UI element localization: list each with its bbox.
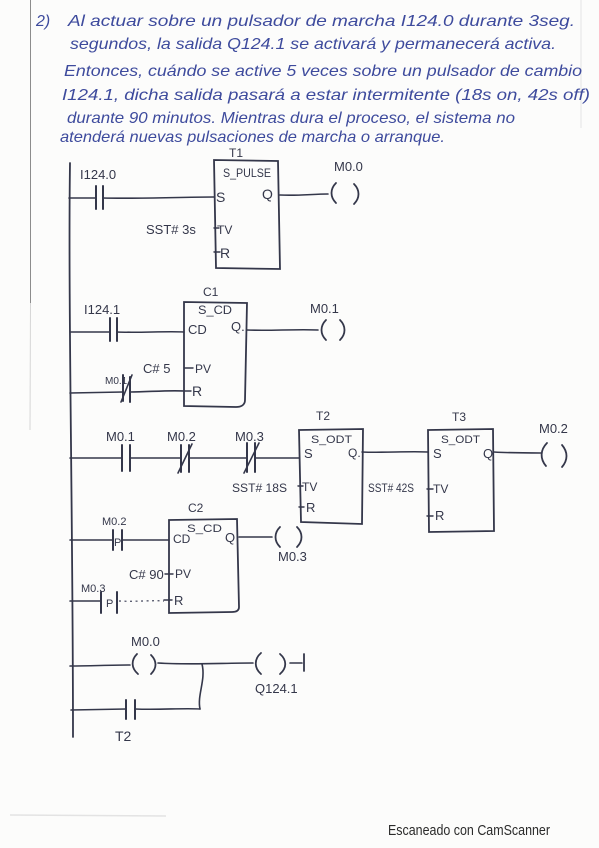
rung 5 branch wire left xyxy=(71,709,126,710)
svg-text:Q.: Q. xyxy=(348,446,361,460)
wire M0.0 to coil Q124.1 xyxy=(158,662,253,665)
svg-text:M0.2: M0.2 xyxy=(102,516,126,528)
svg-text:R: R xyxy=(306,500,315,515)
contact M0.3 negated xyxy=(235,429,264,473)
counter box C2 S_CD xyxy=(164,519,239,613)
svg-text:PV: PV xyxy=(195,362,211,376)
svg-text:R: R xyxy=(174,593,183,608)
svg-text:P: P xyxy=(114,537,121,549)
svg-text:M0.0: M0.0 xyxy=(131,634,160,649)
svg-text:Al actuar sobre un pulsador de: Al actuar sobre un pulsador de marcha I1… xyxy=(67,13,575,30)
branch junction wire xyxy=(199,664,203,709)
wire contact M0.1 to R xyxy=(130,391,184,392)
svg-text:M0.1: M0.1 xyxy=(105,376,128,387)
timer box T3 S_ODT xyxy=(427,429,494,532)
svg-text:C1: C1 xyxy=(203,285,219,299)
coil Q124.1 with end bar xyxy=(255,653,304,696)
svg-text:TV: TV xyxy=(217,223,232,237)
rung 2 wire left xyxy=(71,331,110,333)
svg-text:Q: Q xyxy=(225,530,235,545)
svg-text:S: S xyxy=(216,189,225,205)
rung 5 wire left xyxy=(70,665,130,666)
svg-text:S_CD: S_CD xyxy=(187,523,222,535)
wire T3 Q to coil M0.2 xyxy=(494,452,541,453)
svg-text:C# 5: C# 5 xyxy=(143,361,170,376)
timer box T2 S_ODT xyxy=(298,429,363,524)
svg-text:S: S xyxy=(433,446,442,461)
svg-text:M0.0: M0.0 xyxy=(334,159,363,174)
wire to T2 xyxy=(255,457,299,459)
wire xyxy=(189,457,247,459)
svg-text:Q124.1: Q124.1 xyxy=(255,681,298,696)
svg-text:T2: T2 xyxy=(316,409,330,423)
coil M0.2 xyxy=(539,421,568,467)
wire T1 Q to coil M0.0 xyxy=(280,194,328,195)
svg-text:CD: CD xyxy=(173,532,191,546)
contact I124.0 xyxy=(80,167,116,209)
svg-text:CD: CD xyxy=(188,322,207,337)
svg-text:P: P xyxy=(106,598,113,610)
svg-text:Q: Q xyxy=(262,186,273,202)
svg-text:Entonces, cuándo se active 5 v: Entonces, cuándo se active 5 veces sobre… xyxy=(64,63,582,80)
svg-text:SST# 3s: SST# 3s xyxy=(146,222,196,237)
svg-text:M0.1: M0.1 xyxy=(310,301,339,316)
wire contact to C1 xyxy=(117,331,184,334)
paper edge shadow right xyxy=(580,0,582,128)
svg-text:M0.2: M0.2 xyxy=(167,429,196,444)
svg-text:S_CD: S_CD xyxy=(198,303,232,317)
contact M0.1 negated xyxy=(105,375,132,402)
svg-text:R: R xyxy=(220,245,230,261)
rung 3 wire left xyxy=(70,457,122,459)
rung 2 reset branch wire xyxy=(70,392,123,393)
contact M0.3 positive edge xyxy=(81,583,117,613)
svg-text:R: R xyxy=(435,508,444,523)
svg-text:S_ODT: S_ODT xyxy=(311,434,352,446)
coil M0.1 xyxy=(310,301,345,340)
contact I124.1 xyxy=(84,302,120,341)
contact M0.2 positive edge xyxy=(102,516,126,550)
svg-text:M0.3: M0.3 xyxy=(235,429,264,444)
svg-text:S_ODT: S_ODT xyxy=(441,434,480,446)
svg-text:Escaneado con CamScanner: Escaneado con CamScanner xyxy=(388,822,550,839)
svg-text:I124.0: I124.0 xyxy=(80,167,116,182)
wire contact to C2 xyxy=(122,539,169,541)
coil M0.3 xyxy=(276,527,307,564)
wire contact to T1 xyxy=(103,197,214,198)
coil contact M0.0 xyxy=(131,634,160,674)
svg-text:T3: T3 xyxy=(452,410,466,424)
paper edge shadow bottom-left xyxy=(10,815,166,816)
svg-text:atenderá nuevas pulsaciones de: atenderá nuevas pulsaciones de marcha o … xyxy=(60,129,445,146)
rung 1 wire left xyxy=(69,197,96,199)
svg-text:Q: Q xyxy=(483,446,493,461)
coil M0.0 xyxy=(332,159,363,204)
contact T2 xyxy=(115,700,135,744)
rung 4 reset branch wire xyxy=(70,600,101,602)
notebook margin line left xyxy=(30,0,32,303)
left power rail xyxy=(70,163,73,737)
contact M0.1 xyxy=(106,429,135,471)
svg-text:I124.1, dicha salida pasará a: I124.1, dicha salida pasará a estar inte… xyxy=(62,87,590,104)
wire xyxy=(130,457,181,459)
svg-text:S_PULSE: S_PULSE xyxy=(223,166,271,180)
wire C1 Q to coil M0.1 xyxy=(247,329,318,332)
svg-text:S: S xyxy=(304,446,313,461)
timer box T1 S_PULSE xyxy=(214,160,280,269)
svg-text:C2: C2 xyxy=(188,501,204,515)
wire contact T2 to junction xyxy=(135,708,200,711)
svg-text:M0.3: M0.3 xyxy=(278,549,307,564)
svg-text:Q.: Q. xyxy=(231,319,245,334)
svg-text:2): 2) xyxy=(35,13,50,30)
contact M0.2 negated xyxy=(167,429,196,473)
counter box C1 S_CD xyxy=(184,302,247,407)
handwritten paragraph line 1 xyxy=(35,13,575,30)
svg-text:M0.2: M0.2 xyxy=(539,421,568,436)
svg-text:durante 90 minutos. Mientras d: durante 90 minutos. Mientras dura el pro… xyxy=(67,110,515,127)
wire T2 Q to T3 S xyxy=(362,451,428,454)
svg-text:segundos, la salida Q124.1 se: segundos, la salida Q124.1 se activará y… xyxy=(70,36,556,53)
wire C2 Q to coil M0.3 xyxy=(239,536,272,538)
svg-text:C# 90: C# 90 xyxy=(129,567,164,582)
svg-text:I124.1: I124.1 xyxy=(84,302,120,317)
svg-text:TV: TV xyxy=(302,480,317,494)
rung 4 wire left xyxy=(70,539,113,541)
svg-text:TV: TV xyxy=(433,482,448,496)
wire contact M0.3 to R xyxy=(119,600,164,603)
svg-text:PV: PV xyxy=(175,567,191,581)
svg-text:SST# 18S: SST# 18S xyxy=(232,481,287,495)
svg-text:R: R xyxy=(192,383,202,399)
svg-text:T1: T1 xyxy=(229,146,243,160)
svg-text:M0.1: M0.1 xyxy=(106,429,135,444)
svg-text:T2: T2 xyxy=(115,728,132,744)
svg-text:SST# 42S: SST# 42S xyxy=(368,481,414,495)
